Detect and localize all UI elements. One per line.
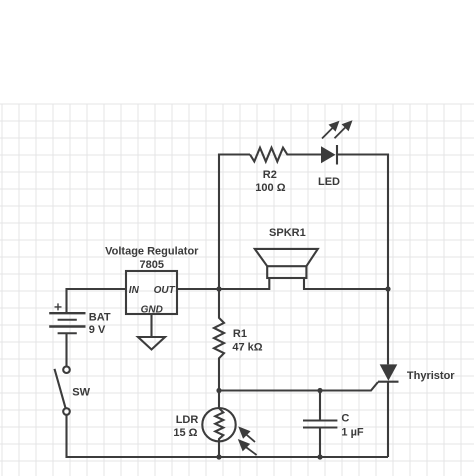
svg-text:IN: IN [129, 285, 140, 296]
svg-text:SW: SW [72, 387, 90, 399]
svg-text:GND: GND [141, 304, 163, 315]
svg-text:Thyristor: Thyristor [407, 370, 455, 382]
svg-text:LED: LED [318, 176, 340, 188]
svg-text:9 V: 9 V [89, 324, 106, 336]
svg-text:SPKR1: SPKR1 [269, 227, 306, 239]
svg-text:Voltage Regulator: Voltage Regulator [105, 246, 199, 258]
svg-text:R1: R1 [233, 328, 247, 340]
svg-text:47 kΩ: 47 kΩ [232, 342, 262, 354]
svg-text:15 Ω: 15 Ω [173, 427, 197, 439]
svg-text:R2: R2 [263, 169, 277, 181]
svg-text:BAT: BAT [89, 311, 111, 323]
svg-text:1 µF: 1 µF [341, 426, 364, 438]
svg-text:C: C [341, 412, 349, 424]
svg-text:OUT: OUT [154, 285, 176, 296]
svg-text:LDR: LDR [176, 414, 199, 426]
svg-text:7805: 7805 [140, 259, 164, 271]
svg-text:100 Ω: 100 Ω [255, 182, 285, 194]
